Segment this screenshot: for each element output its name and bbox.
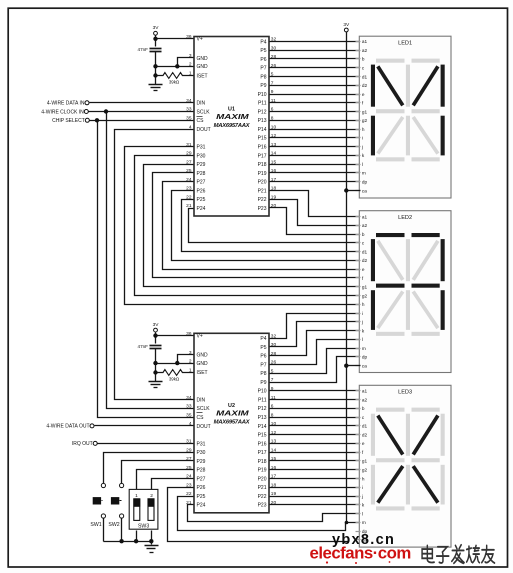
svg-text:20: 20: [271, 203, 277, 209]
svg-text:d1: d1: [362, 250, 368, 255]
svg-text:11: 11: [271, 98, 276, 104]
svg-text:ISET: ISET: [197, 370, 208, 376]
svg-text:P4: P4: [260, 336, 266, 342]
svg-text:15: 15: [271, 456, 277, 462]
svg-text:h: h: [362, 127, 365, 132]
svg-text:31: 31: [186, 142, 192, 148]
svg-text:47nF: 47nF: [138, 344, 149, 349]
svg-text:P9: P9: [260, 380, 266, 386]
svg-text:P12: P12: [258, 406, 267, 412]
svg-text:P17: P17: [258, 450, 267, 456]
svg-text:P27: P27: [197, 180, 206, 186]
svg-text:23: 23: [186, 186, 192, 192]
svg-text:47nF: 47nF: [138, 47, 149, 52]
svg-text:39kΩ: 39kΩ: [169, 80, 180, 85]
svg-text:P10: P10: [258, 92, 267, 98]
svg-text:P8: P8: [260, 74, 266, 80]
svg-text:24: 24: [186, 177, 192, 183]
svg-text:24: 24: [186, 474, 192, 480]
svg-text:g2: g2: [362, 118, 368, 123]
svg-text:20: 20: [271, 500, 277, 506]
svg-text:P30: P30: [197, 153, 206, 159]
svg-text:32: 32: [271, 333, 277, 339]
svg-text:7: 7: [271, 80, 274, 86]
svg-text:P24: P24: [197, 503, 206, 509]
svg-text:11: 11: [271, 395, 276, 401]
svg-text:4-WIRE CLOCK IN: 4-WIRE CLOCK IN: [41, 109, 84, 115]
svg-text:P31: P31: [197, 145, 206, 151]
svg-text:P26: P26: [197, 485, 206, 491]
svg-text:P19: P19: [258, 171, 267, 177]
svg-text:d1: d1: [362, 74, 368, 79]
svg-text:l: l: [362, 511, 363, 516]
svg-text:m: m: [362, 520, 366, 525]
svg-text:b: b: [362, 406, 365, 411]
svg-text:GND: GND: [197, 56, 209, 62]
svg-text:P26: P26: [197, 188, 206, 194]
svg-text:elecfans·com: elecfans·com: [310, 544, 411, 563]
svg-text:14: 14: [271, 151, 277, 157]
svg-text:ca: ca: [362, 364, 367, 369]
svg-text:P16: P16: [258, 145, 267, 151]
svg-text:e: e: [362, 92, 365, 97]
svg-text:P28: P28: [197, 171, 206, 177]
svg-text:DIN: DIN: [197, 398, 206, 404]
svg-text:29: 29: [186, 151, 192, 157]
svg-text:P15: P15: [258, 136, 267, 142]
svg-text:CS: CS: [197, 415, 205, 421]
svg-text:P13: P13: [258, 118, 267, 124]
svg-text:17: 17: [271, 474, 277, 480]
svg-text:MAXIM: MAXIM: [216, 409, 249, 418]
svg-text:4: 4: [189, 124, 192, 130]
svg-text:b: b: [362, 232, 365, 237]
svg-text:a1: a1: [362, 389, 368, 394]
svg-text:6: 6: [271, 404, 274, 410]
svg-text:21: 21: [186, 203, 192, 209]
svg-text:3: 3: [189, 350, 192, 356]
svg-text:25: 25: [186, 168, 192, 174]
svg-text:P8: P8: [260, 371, 266, 377]
svg-text:26: 26: [271, 360, 277, 366]
svg-text:i: i: [362, 136, 363, 141]
svg-text:P5: P5: [260, 345, 266, 351]
svg-text:g1: g1: [362, 109, 368, 114]
svg-text:a2: a2: [362, 397, 368, 402]
svg-text:dp: dp: [362, 180, 368, 185]
svg-text:P12: P12: [258, 109, 267, 115]
svg-text:22: 22: [186, 491, 192, 497]
svg-text:SW2: SW2: [108, 522, 119, 528]
svg-text:i: i: [362, 311, 363, 316]
svg-text:10: 10: [271, 124, 277, 130]
svg-text:4: 4: [189, 421, 192, 427]
svg-text:36: 36: [186, 34, 192, 40]
svg-text:19: 19: [271, 491, 277, 497]
svg-text:P4: P4: [260, 39, 266, 45]
svg-text:18: 18: [271, 483, 277, 489]
svg-text:10: 10: [271, 421, 277, 427]
svg-text:5: 5: [271, 72, 274, 78]
svg-text:LED2: LED2: [398, 215, 412, 221]
svg-text:35: 35: [186, 412, 192, 418]
svg-text:2: 2: [150, 493, 153, 499]
svg-text:l: l: [362, 162, 363, 167]
svg-text:SW1: SW1: [90, 522, 101, 528]
svg-text:33: 33: [186, 404, 192, 410]
svg-text:9: 9: [271, 89, 274, 95]
svg-text:dp: dp: [362, 355, 368, 360]
svg-text:P6: P6: [260, 354, 266, 360]
svg-text:P22: P22: [258, 197, 267, 203]
svg-text:4-WIRE DATA IN: 4-WIRE DATA IN: [47, 101, 85, 107]
svg-text:3: 3: [189, 53, 192, 59]
svg-text:P13: P13: [258, 415, 267, 421]
svg-text:3V: 3V: [343, 22, 350, 28]
svg-text:17: 17: [271, 177, 277, 183]
svg-text:13: 13: [271, 439, 277, 445]
svg-text:P21: P21: [258, 188, 267, 194]
svg-text:GND: GND: [197, 353, 209, 359]
svg-text:P18: P18: [258, 162, 267, 168]
svg-text:27: 27: [186, 159, 192, 165]
svg-text:2: 2: [189, 62, 192, 68]
svg-text:CHIP SELECT: CHIP SELECT: [52, 118, 85, 124]
svg-text:d2: d2: [362, 83, 368, 88]
svg-text:36: 36: [186, 331, 192, 337]
svg-text:30: 30: [271, 342, 277, 348]
svg-text:j: j: [361, 144, 363, 149]
svg-text:P18: P18: [258, 459, 267, 465]
svg-text:P7: P7: [260, 66, 266, 72]
svg-text:34: 34: [186, 395, 192, 401]
svg-text:DOUT: DOUT: [197, 424, 211, 430]
svg-text:26: 26: [271, 63, 277, 69]
svg-text:1: 1: [189, 367, 192, 373]
svg-text:P20: P20: [258, 180, 267, 186]
svg-text:a2: a2: [362, 48, 368, 53]
svg-text:18: 18: [271, 186, 277, 192]
svg-text:P28: P28: [197, 468, 206, 474]
svg-text:30: 30: [271, 45, 277, 51]
svg-text:P17: P17: [258, 153, 267, 159]
svg-text:h: h: [362, 302, 365, 307]
svg-text:m: m: [362, 171, 366, 176]
svg-text:CS: CS: [197, 118, 205, 124]
svg-text:13: 13: [271, 142, 277, 148]
svg-text:d2: d2: [362, 258, 368, 263]
svg-text:P29: P29: [197, 459, 206, 465]
svg-text:9: 9: [271, 386, 274, 392]
svg-text:34: 34: [186, 98, 192, 104]
svg-text:27: 27: [186, 456, 192, 462]
svg-text:IRQ OUT: IRQ OUT: [72, 441, 93, 447]
svg-text:MAX6957AAX: MAX6957AAX: [214, 123, 251, 129]
svg-text:ISET: ISET: [197, 73, 208, 79]
svg-text:P14: P14: [258, 424, 267, 430]
svg-text:15: 15: [271, 159, 277, 165]
svg-text:23: 23: [186, 482, 192, 488]
svg-text:39kΩ: 39kΩ: [169, 377, 180, 382]
svg-text:P31: P31: [197, 441, 206, 447]
svg-text:a1: a1: [362, 39, 368, 44]
svg-text:a1: a1: [362, 214, 368, 219]
svg-text:P9: P9: [260, 83, 266, 89]
svg-text:SCLK: SCLK: [197, 406, 211, 412]
svg-text:2: 2: [189, 358, 192, 364]
svg-text:P23: P23: [258, 503, 267, 509]
svg-text:ca: ca: [362, 188, 367, 193]
svg-text:g2: g2: [362, 293, 368, 298]
svg-text:31: 31: [186, 439, 192, 445]
svg-text:V+: V+: [197, 334, 203, 340]
svg-text:g1: g1: [362, 285, 368, 290]
svg-text:4-WIRE DATA OUT: 4-WIRE DATA OUT: [46, 424, 89, 430]
svg-text:j: j: [361, 494, 363, 499]
svg-text:28: 28: [271, 351, 277, 357]
svg-text:21: 21: [186, 500, 192, 506]
svg-text:P6: P6: [260, 57, 266, 63]
svg-text:8: 8: [271, 412, 274, 418]
svg-text:22: 22: [186, 194, 192, 200]
svg-text:35: 35: [186, 116, 192, 122]
svg-text:SCLK: SCLK: [197, 109, 211, 115]
svg-text:32: 32: [271, 37, 277, 43]
svg-text:d1: d1: [362, 424, 368, 429]
svg-text:P20: P20: [258, 476, 267, 482]
svg-text:P16: P16: [258, 441, 267, 447]
svg-text:P11: P11: [258, 101, 267, 107]
svg-text:P24: P24: [197, 206, 206, 212]
svg-text:16: 16: [271, 465, 277, 471]
svg-text:33: 33: [186, 107, 192, 113]
svg-text:P19: P19: [258, 468, 267, 474]
svg-text:SW3: SW3: [138, 524, 149, 530]
svg-text:P5: P5: [260, 48, 266, 54]
svg-text:P14: P14: [258, 127, 267, 133]
svg-text:P27: P27: [197, 476, 206, 482]
svg-text:12: 12: [271, 133, 277, 139]
svg-text:DOUT: DOUT: [197, 127, 211, 133]
svg-text:MAXIM: MAXIM: [216, 112, 249, 121]
svg-text:DIN: DIN: [197, 101, 206, 107]
svg-text:7: 7: [271, 377, 274, 383]
svg-text:d2: d2: [362, 432, 368, 437]
svg-text:12: 12: [271, 430, 277, 436]
svg-text:LED3: LED3: [398, 390, 412, 396]
svg-text:5: 5: [271, 369, 274, 375]
svg-text:MAX6957AAX: MAX6957AAX: [214, 420, 251, 426]
svg-text:P21: P21: [258, 485, 267, 491]
svg-text:a2: a2: [362, 223, 368, 228]
svg-text:P22: P22: [258, 494, 267, 500]
svg-text:GND: GND: [197, 361, 209, 367]
svg-text:3V: 3V: [153, 25, 160, 31]
svg-text:P10: P10: [258, 389, 267, 395]
svg-text:1: 1: [189, 71, 192, 77]
svg-text:P25: P25: [197, 197, 206, 203]
svg-text:g2: g2: [362, 468, 368, 473]
svg-text:6: 6: [271, 107, 274, 113]
svg-text:V+: V+: [197, 37, 203, 43]
svg-text:h: h: [362, 476, 365, 481]
svg-text:19: 19: [271, 194, 277, 200]
svg-text:P15: P15: [258, 433, 267, 439]
svg-text:25: 25: [186, 465, 192, 471]
svg-text:3V: 3V: [153, 322, 160, 328]
svg-text:LED1: LED1: [398, 41, 412, 47]
svg-text:1: 1: [135, 493, 138, 499]
svg-text:14: 14: [271, 447, 277, 453]
svg-text:P29: P29: [197, 162, 206, 168]
svg-text:16: 16: [271, 168, 277, 174]
svg-text:28: 28: [271, 54, 277, 60]
svg-text:P23: P23: [258, 206, 267, 212]
svg-text:l: l: [362, 337, 363, 342]
svg-text:P7: P7: [260, 362, 266, 368]
svg-text:e: e: [362, 267, 365, 272]
svg-text:GND: GND: [197, 64, 209, 70]
svg-text:P11: P11: [258, 398, 267, 404]
svg-text:i: i: [362, 485, 363, 490]
svg-text:b: b: [362, 57, 365, 62]
svg-text:m: m: [362, 346, 366, 351]
svg-text:g1: g1: [362, 459, 368, 464]
svg-text:j: j: [361, 320, 363, 325]
svg-text:8: 8: [271, 116, 274, 122]
svg-text:P30: P30: [197, 450, 206, 456]
svg-text:29: 29: [186, 447, 192, 453]
svg-text:P25: P25: [197, 494, 206, 500]
svg-text:e: e: [362, 441, 365, 446]
